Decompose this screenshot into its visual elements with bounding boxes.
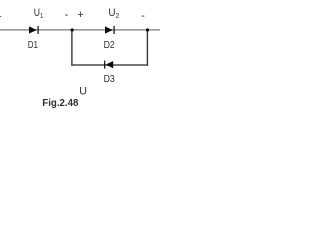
svg-text:-: - <box>141 10 145 22</box>
svg-text:D2: D2 <box>104 40 116 51</box>
svg-text:Fig.2.48: Fig.2.48 <box>42 98 79 109</box>
svg-text:+: + <box>0 11 2 23</box>
wire loop right vertical (up to node B) <box>146 30 148 66</box>
node A junction dot <box>71 28 74 31</box>
wire loop left vertical (node A down) <box>71 30 73 66</box>
wire top rail (left end to right edge) <box>0 29 160 31</box>
svg-text:+: + <box>78 9 84 21</box>
svg-text:D3: D3 <box>104 74 116 85</box>
svg-text:-: - <box>65 9 69 21</box>
diode D3 (pointing left) <box>104 61 113 69</box>
wire loop bottom horizontal <box>71 64 148 66</box>
svg-text:U: U <box>79 85 87 97</box>
node B junction dot <box>146 28 149 31</box>
svg-text:D1: D1 <box>28 40 39 51</box>
diode D2 <box>105 26 115 34</box>
diode D1 <box>29 26 39 34</box>
